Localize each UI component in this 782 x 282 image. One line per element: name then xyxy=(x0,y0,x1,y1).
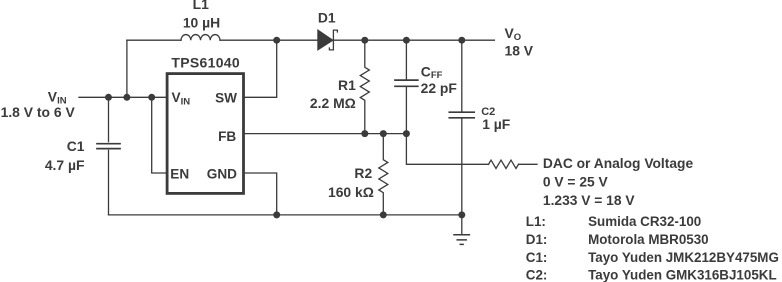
wire GND branch xyxy=(245,173,277,215)
svg-text:160 kΩ: 160 kΩ xyxy=(328,184,374,200)
svg-text:VO: VO xyxy=(505,25,522,43)
svg-text:DAC or Analog Voltage: DAC or Analog Voltage xyxy=(543,156,694,171)
wire top rail D1 to VO end xyxy=(334,39,495,41)
svg-text:1.8 V to 6 V: 1.8 V to 6 V xyxy=(1,104,76,120)
svg-text:10 µH: 10 µH xyxy=(183,14,220,30)
svg-text:Tayo Yuden GMK316BJ105KL: Tayo Yuden GMK316BJ105KL xyxy=(588,268,777,282)
svg-text:D1:: D1: xyxy=(526,232,548,247)
capacitor C2 xyxy=(449,40,474,215)
svg-text:22 pF: 22 pF xyxy=(421,80,457,96)
wire L1 branch up xyxy=(126,40,128,97)
svg-text:EN: EN xyxy=(170,167,189,182)
svg-text:R2: R2 xyxy=(354,165,372,181)
capacitor CFF xyxy=(395,40,418,133)
inductor L1 xyxy=(181,35,220,41)
wire bottom rail xyxy=(109,214,462,216)
svg-text:FB: FB xyxy=(218,129,236,144)
wire DAC branch from FB xyxy=(406,134,488,165)
svg-text:D1: D1 xyxy=(318,9,336,25)
wire top rail L1 to D1 xyxy=(220,39,318,41)
resistor R2 xyxy=(379,134,388,215)
wire C1 branch vertical xyxy=(108,97,110,215)
svg-text:L1:: L1: xyxy=(526,214,546,229)
svg-text:R1: R1 xyxy=(338,77,356,93)
diode D1 xyxy=(318,30,338,50)
svg-text:GND: GND xyxy=(207,167,237,182)
svg-text:C2:: C2: xyxy=(526,268,548,282)
wire EN tie xyxy=(152,97,166,173)
svg-text:TPS61040: TPS61040 xyxy=(171,55,240,71)
svg-text:C1:: C1: xyxy=(526,250,548,265)
wire VIN input horizontal xyxy=(79,96,166,98)
svg-text:Tayo Yuden JMK212BY475MG: Tayo Yuden JMK212BY475MG xyxy=(588,250,779,265)
svg-text:Sumida CR32-100: Sumida CR32-100 xyxy=(588,214,701,229)
svg-text:1 µF: 1 µF xyxy=(482,116,510,132)
svg-text:SW: SW xyxy=(215,91,237,106)
svg-text:2.2 MΩ: 2.2 MΩ xyxy=(310,95,356,111)
node dots FB line xyxy=(361,130,410,137)
node dots VIN line xyxy=(105,94,155,101)
op-amp U1 TPS61040 box xyxy=(167,74,243,194)
wire DAC lead to label xyxy=(519,163,538,165)
wire top rail left segment xyxy=(127,39,181,41)
wire FB horizontal xyxy=(245,133,407,135)
resistor R1 xyxy=(360,40,369,133)
svg-text:4.7 µF: 4.7 µF xyxy=(45,157,85,173)
ground xyxy=(454,215,469,245)
svg-text:1.233 V = 18 V: 1.233 V = 18 V xyxy=(543,193,635,208)
svg-text:0 V = 25 V: 0 V = 25 V xyxy=(543,175,609,190)
svg-text:C1: C1 xyxy=(67,138,85,154)
svg-text:18 V: 18 V xyxy=(505,42,534,58)
svg-text:CFF: CFF xyxy=(421,63,443,81)
svg-text:Motorola MBR0530: Motorola MBR0530 xyxy=(588,232,709,247)
node dots top rail xyxy=(273,37,465,44)
capacitor C1 xyxy=(97,144,120,149)
resistor DAC series (unlabeled) xyxy=(489,160,519,168)
svg-text:L1: L1 xyxy=(193,0,209,12)
wire SW branch xyxy=(245,40,277,97)
node dots bottom rail xyxy=(273,211,465,218)
